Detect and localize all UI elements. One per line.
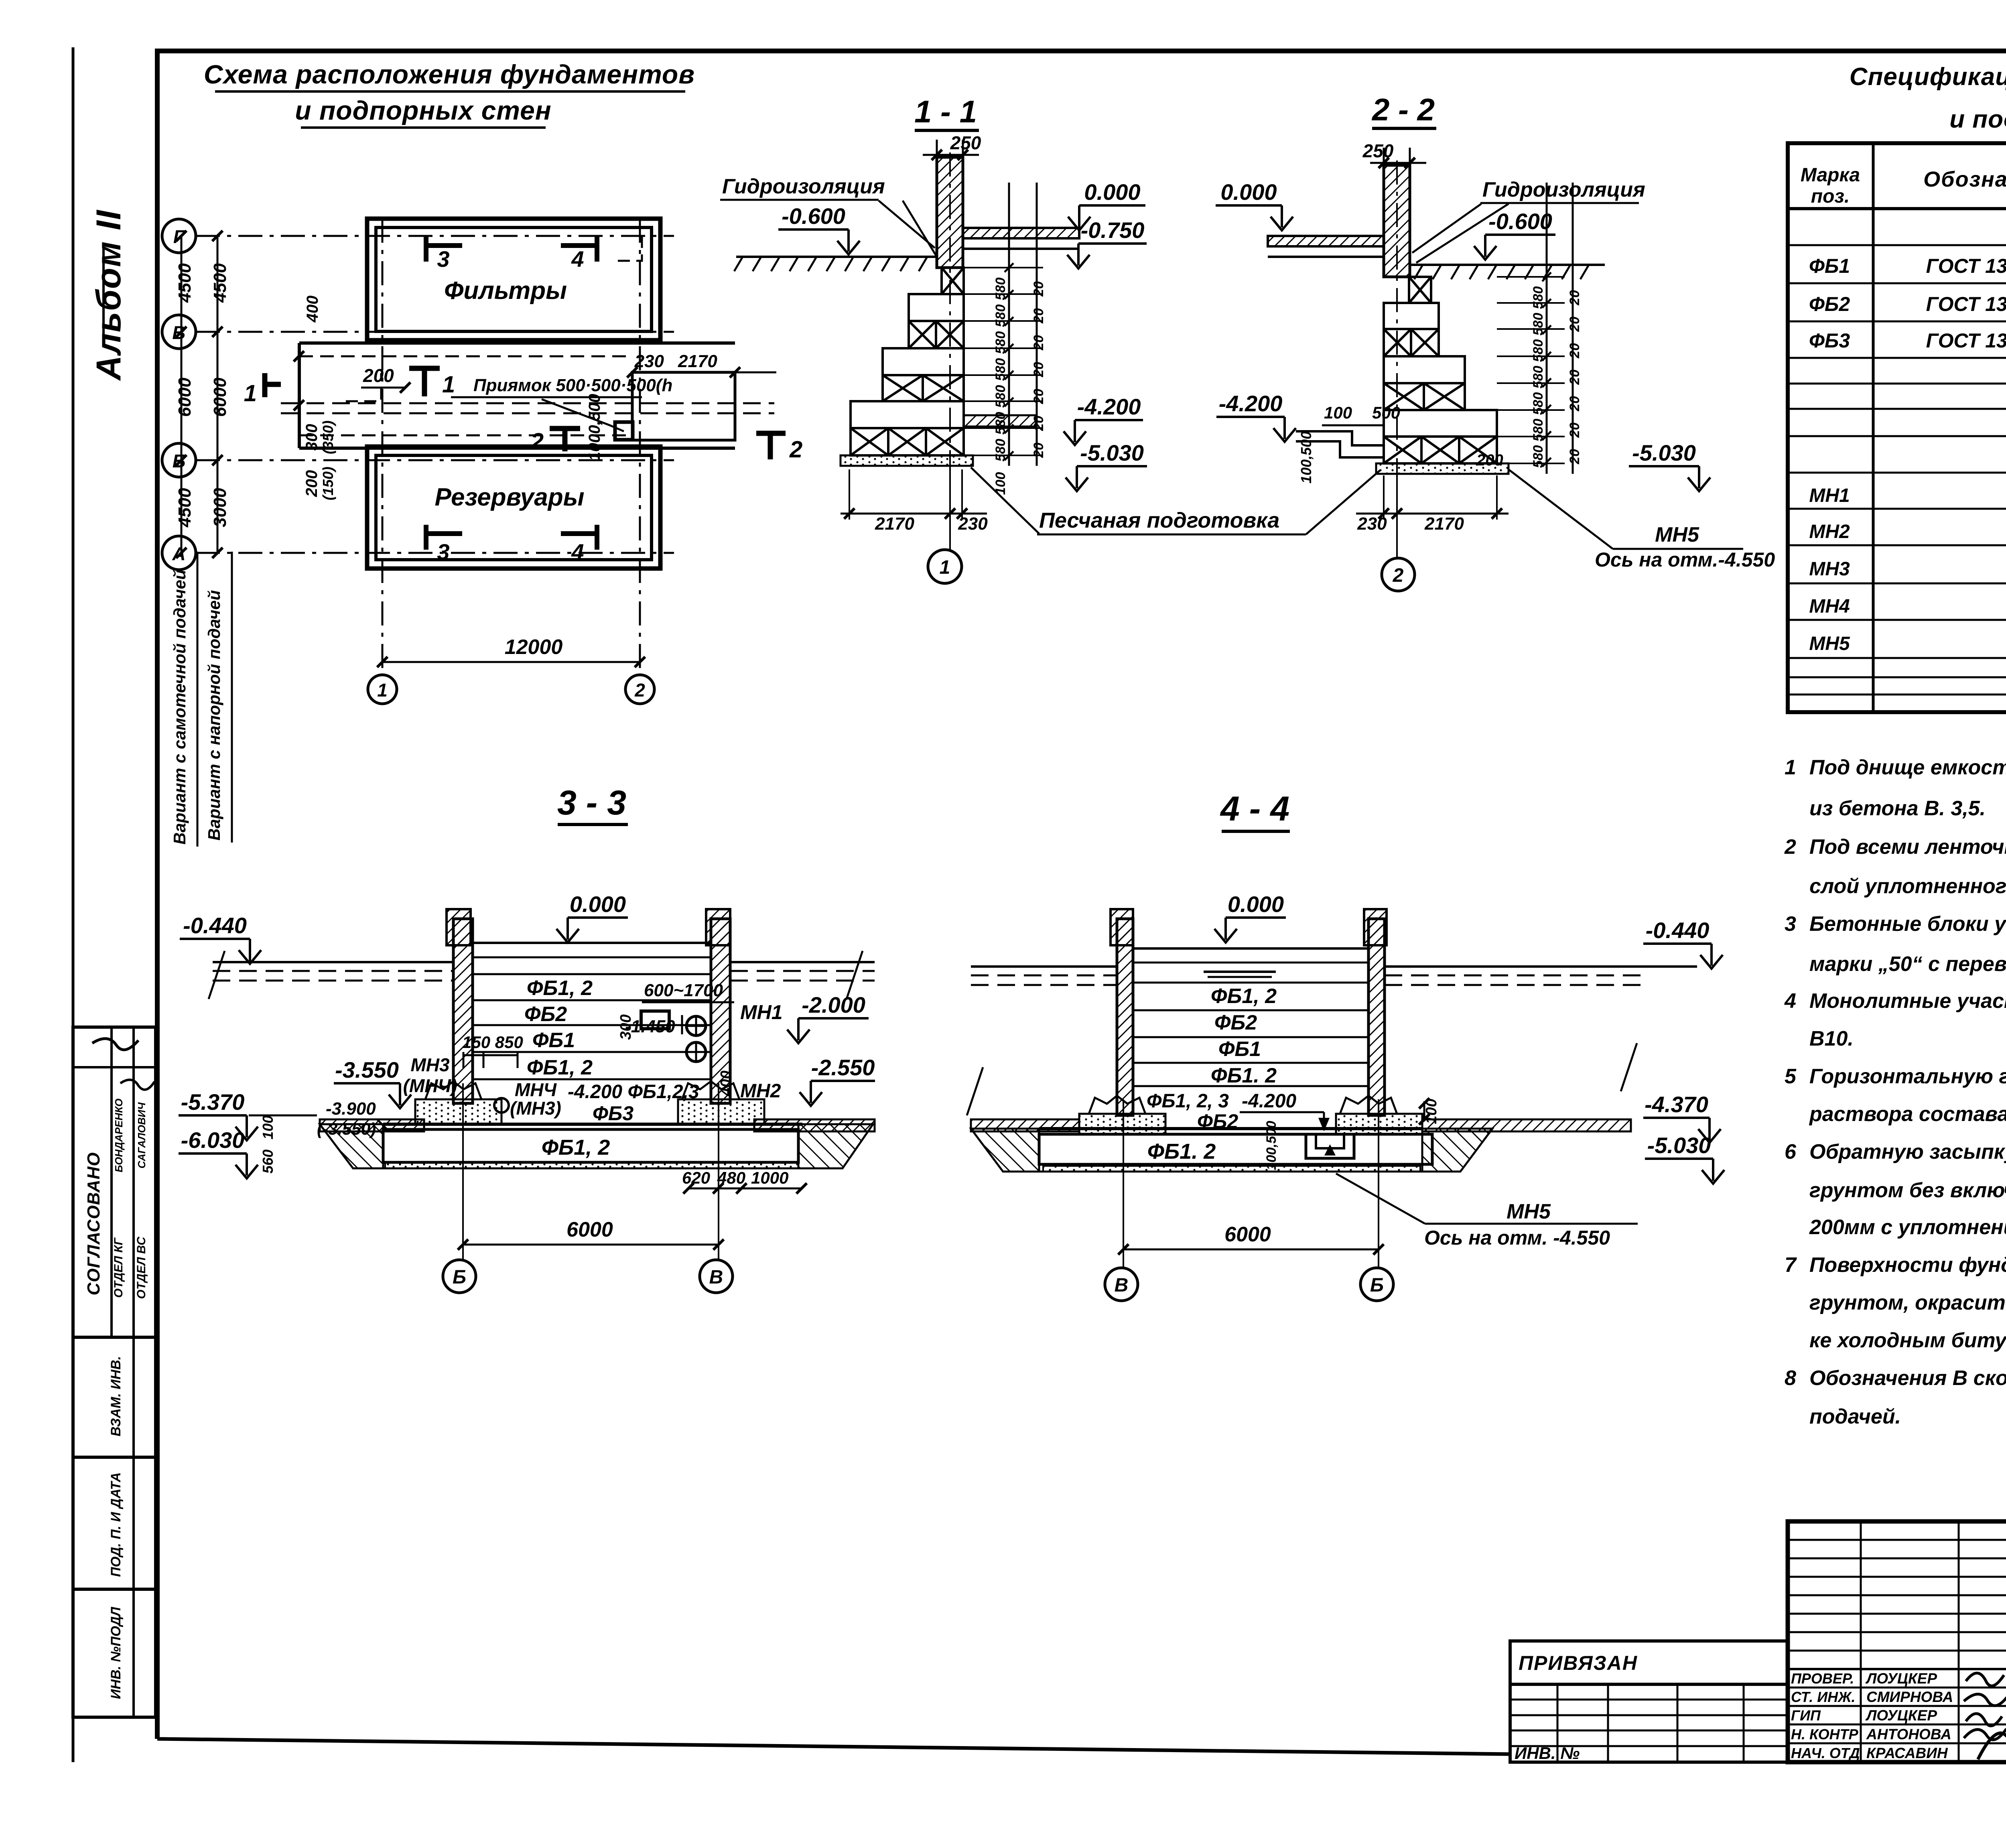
3-3 bottom slab bbox=[383, 1123, 802, 1126]
svg-text:из бетона В. 3,5.: из бетона В. 3,5. bbox=[1809, 797, 1986, 820]
approval stamp grid bbox=[73, 1066, 156, 1068]
svg-text:ФБ1. 2: ФБ1. 2 bbox=[1211, 1064, 1277, 1087]
4-4 right wall top cap bbox=[1364, 909, 1387, 945]
grid circle А bbox=[162, 536, 196, 570]
3-3 elevation -5.370 bbox=[179, 1115, 258, 1140]
gallery right extension bbox=[632, 372, 735, 440]
svg-text:-2.000: -2.000 bbox=[802, 992, 865, 1017]
svg-text:230: 230 bbox=[1357, 514, 1387, 534]
svg-text:2: 2 bbox=[634, 680, 645, 701]
2-2 floor slab left bbox=[1268, 236, 1384, 246]
3-3 ground band hatched left bbox=[320, 1119, 424, 1131]
svg-text:3: 3 bbox=[437, 539, 449, 565]
3-3 ground water dashed right bbox=[730, 970, 875, 972]
3-3 dim 620 480 1000 bbox=[688, 1188, 802, 1190]
1-1 elevation -5.030 bbox=[1066, 466, 1147, 491]
svg-text:Резервуары: Резервуары bbox=[434, 483, 584, 511]
svg-text:подачей.: подачей. bbox=[1809, 1405, 1901, 1428]
svg-text:230: 230 bbox=[958, 514, 988, 534]
svg-text:-4.200: -4.200 bbox=[1242, 1091, 1296, 1112]
grid line Г bbox=[196, 235, 674, 237]
svg-text:ЛОУЦКЕР: ЛОУЦКЕР bbox=[1865, 1707, 1937, 1724]
approval stamp box bbox=[73, 1027, 156, 1717]
svg-text:-4.370: -4.370 bbox=[1645, 1092, 1708, 1117]
svg-text:ФБ1: ФБ1 bbox=[532, 1029, 575, 1052]
svg-text:560: 560 bbox=[260, 1149, 276, 1174]
4-4 left wall bbox=[1117, 919, 1133, 1115]
4-4 ground level right bbox=[1385, 965, 1697, 968]
1-1 elevation -4.200 bbox=[1064, 420, 1143, 445]
svg-text:Альбом II: Альбом II bbox=[89, 209, 128, 381]
4-4 break marks bbox=[967, 1067, 983, 1115]
svg-text:4500: 4500 bbox=[175, 263, 195, 303]
svg-text:400: 400 bbox=[304, 296, 321, 323]
svg-text:слой уплотненного песка h=100: слой уплотненного песка h=100мм. bbox=[1809, 875, 2006, 898]
svg-text:ОТДЕЛ ВС: ОТДЕЛ ВС bbox=[135, 1236, 148, 1299]
2-2 elevation -5.030 bbox=[1629, 466, 1710, 491]
title block left grid bbox=[1510, 1684, 1788, 1762]
4-4 bottom slab bbox=[1039, 1127, 1422, 1130]
svg-text:200: 200 bbox=[1476, 451, 1503, 469]
svg-text:Марка: Марка bbox=[1801, 164, 1860, 186]
svg-text:В: В bbox=[709, 1267, 723, 1288]
section cut mark 1T left bbox=[262, 373, 268, 397]
svg-text:3 - 3: 3 - 3 bbox=[557, 784, 626, 822]
svg-text:Под всеми ленточными фундамент: Под всеми ленточными фундаментами предус… bbox=[1809, 835, 2006, 859]
svg-text:Вариант с напорной подачей: Вариант с напорной подачей bbox=[205, 590, 223, 841]
section cut mark T2 bbox=[768, 433, 773, 459]
row dimension line outer bbox=[181, 236, 183, 553]
svg-text:-2.550: -2.550 bbox=[811, 1055, 875, 1080]
svg-text:ГОСТ 13579-78: ГОСТ 13579-78 bbox=[1926, 293, 2006, 315]
2-2 hydro leader lines bbox=[1412, 204, 1481, 253]
svg-text:ФБ1, 2, 3: ФБ1, 2, 3 bbox=[1147, 1091, 1229, 1112]
building Резервуары outer wall bbox=[367, 447, 660, 569]
3-3 footing left bbox=[425, 1081, 481, 1099]
3-3 pipe МН2 circle bbox=[686, 1042, 706, 1062]
svg-text:Н. КОНТР: Н. КОНТР bbox=[1791, 1726, 1859, 1742]
1-1 floor slab right bbox=[963, 228, 1079, 238]
svg-text:1: 1 bbox=[244, 380, 257, 406]
svg-text:МН5: МН5 bbox=[1809, 633, 1850, 654]
svg-text:5: 5 bbox=[1785, 1065, 1797, 1088]
1-1 wall axis line bbox=[949, 152, 951, 461]
3-3 dim 6000 bbox=[463, 1244, 719, 1246]
svg-text:ФБ2: ФБ2 bbox=[1214, 1011, 1257, 1034]
svg-text:2: 2 bbox=[530, 428, 544, 455]
svg-text:Схема расположения фундаментов: Схема расположения фундаментов bbox=[204, 59, 695, 89]
svg-text:Б: Б bbox=[453, 1267, 466, 1288]
svg-text:МНЧ: МНЧ bbox=[515, 1079, 557, 1100]
svg-text:Гидроизоляция: Гидроизоляция bbox=[722, 175, 885, 198]
svg-text:20: 20 bbox=[1567, 449, 1582, 465]
svg-text:1000: 1000 bbox=[751, 1168, 788, 1187]
1-1 step dim extension lines bbox=[964, 267, 1043, 268]
approval signatures bbox=[92, 1039, 138, 1050]
svg-text:3: 3 bbox=[437, 246, 449, 272]
svg-text:-5.030: -5.030 bbox=[1647, 1133, 1711, 1158]
svg-text:Приямок 500·500·500(h: Приямок 500·500·500(h bbox=[473, 376, 672, 395]
3-3 inset detail box bbox=[641, 1011, 669, 1029]
4-4 footing left bbox=[1089, 1096, 1145, 1114]
2-2 dim stack 20 bbox=[1572, 183, 1574, 474]
svg-text:0.000: 0.000 bbox=[1084, 179, 1140, 205]
svg-text:ПРИВЯЗАН: ПРИВЯЗАН bbox=[1519, 1652, 1638, 1674]
3-3 right wall top cap bbox=[706, 909, 730, 945]
svg-text:20: 20 bbox=[1567, 317, 1582, 332]
1-1 elevation -0.750 bbox=[1067, 244, 1147, 268]
grid line В bbox=[196, 331, 674, 333]
svg-text:20: 20 bbox=[1031, 308, 1046, 324]
svg-text:ФБ2: ФБ2 bbox=[524, 1003, 567, 1026]
3-3 axis lines to circles bbox=[462, 1083, 464, 1260]
svg-text:Спецификация к схеме располож: Спецификация к схеме расположения фундам… bbox=[1850, 63, 2006, 91]
building Фильтры corner dashes bbox=[346, 373, 381, 401]
section mark 3 top bbox=[426, 243, 462, 248]
svg-text:20: 20 bbox=[1031, 362, 1046, 378]
gallery corridor left end bbox=[298, 343, 301, 448]
svg-text:ФБ1. 2: ФБ1. 2 bbox=[1147, 1139, 1216, 1164]
svg-text:АНТОНОВА: АНТОНОВА bbox=[1866, 1726, 1951, 1742]
section mark 3 bottom bbox=[426, 531, 462, 536]
4-4 right wall bbox=[1368, 919, 1385, 1115]
gallery axis dashed bbox=[281, 402, 774, 404]
3-3 elevation -6.030 bbox=[179, 1153, 258, 1178]
svg-text:580: 580 bbox=[993, 439, 1008, 462]
svg-text:НАЧ. ОТД: НАЧ. ОТД bbox=[1791, 1745, 1860, 1761]
1-1 hydro leader lines bbox=[879, 201, 935, 248]
svg-text:ВЗАМ. ИНВ.: ВЗАМ. ИНВ. bbox=[108, 1356, 124, 1436]
svg-text:200: 200 bbox=[303, 470, 321, 498]
3-3 top slab lines bbox=[473, 942, 711, 944]
svg-text:580: 580 bbox=[993, 278, 1008, 301]
grid circle Г bbox=[162, 219, 196, 253]
svg-text:4500: 4500 bbox=[210, 263, 230, 303]
2-2 sand prep strip bbox=[1376, 463, 1509, 474]
grid circle 2 bbox=[625, 675, 654, 704]
grid circle Б bbox=[162, 443, 196, 477]
1-1 elevation -0.600 bbox=[778, 229, 860, 254]
svg-text:МН3: МН3 bbox=[1809, 558, 1850, 580]
svg-text:0.000: 0.000 bbox=[1220, 179, 1277, 205]
building Фильтры outer wall bbox=[367, 219, 660, 340]
grid circle 1 bbox=[368, 675, 397, 704]
svg-text:200мм с уплотнением до плотнос: 200мм с уплотнением до плотности ρ Вf : … bbox=[1809, 1216, 2006, 1239]
svg-text:и подпорных стен: и подпорных стен bbox=[295, 95, 551, 125]
svg-text:500: 500 bbox=[1372, 403, 1400, 422]
svg-text:МН5: МН5 bbox=[1507, 1200, 1551, 1223]
3-3 bottom trapezoid right bbox=[798, 1124, 873, 1168]
4-4 bottom trapezoid right bbox=[1422, 1129, 1492, 1172]
svg-text:СТ. ИНЖ.: СТ. ИНЖ. bbox=[1791, 1689, 1856, 1705]
svg-text:20: 20 bbox=[1567, 422, 1582, 438]
4-4 top slab lines bbox=[1133, 947, 1368, 950]
svg-text:МН1: МН1 bbox=[740, 1001, 783, 1024]
4-4 groundwater dashed bbox=[971, 975, 1117, 977]
3-3 bottom sand line bbox=[383, 1168, 843, 1170]
svg-text:4500: 4500 bbox=[175, 488, 195, 528]
svg-text:100,500: 100,500 bbox=[1298, 431, 1314, 483]
4-4 left wall top cap bbox=[1111, 909, 1133, 945]
svg-text:6000: 6000 bbox=[175, 378, 195, 417]
svg-text:В: В bbox=[1115, 1275, 1129, 1296]
3-3 left wall top cap bbox=[447, 909, 471, 945]
4-4 ground band hatched left bbox=[971, 1119, 1079, 1131]
svg-text:ФБ1: ФБ1 bbox=[1809, 255, 1850, 277]
svg-text:580: 580 bbox=[1531, 419, 1546, 442]
svg-text:580: 580 bbox=[993, 331, 1008, 354]
svg-text:2170: 2170 bbox=[678, 351, 717, 371]
3-3 bottom trapezoid left bbox=[320, 1124, 383, 1168]
svg-text:-0.600: -0.600 bbox=[1488, 209, 1552, 234]
building Резервуары inner wall bbox=[376, 455, 652, 560]
svg-text:Монолитные участки между блока: Монолитные участки между блоками выполня… bbox=[1809, 989, 2006, 1013]
2-2 wall axis line bbox=[1396, 160, 1398, 465]
4-4 brick hatch mark top bbox=[1204, 971, 1276, 973]
svg-text:580: 580 bbox=[993, 385, 1008, 408]
4-4 elevation 0.000 bbox=[1214, 918, 1286, 942]
svg-text:580: 580 bbox=[1531, 445, 1546, 468]
svg-text:100: 100 bbox=[260, 1115, 276, 1139]
svg-text:ИНВ. №ПОДЛ: ИНВ. №ПОДЛ bbox=[108, 1606, 124, 1699]
spec table header bottom line bbox=[1788, 207, 2006, 210]
svg-text:ФБ1, 2: ФБ1, 2 bbox=[527, 977, 593, 1000]
4-4 ground level left bbox=[971, 965, 1117, 968]
spec table outer box bbox=[1788, 143, 2006, 712]
svg-text:580: 580 bbox=[1531, 313, 1546, 336]
grid line 2 vertical bbox=[639, 219, 641, 675]
svg-text:480: 480 bbox=[717, 1168, 745, 1187]
svg-text:Фильтры: Фильтры bbox=[444, 277, 567, 305]
svg-text:6000: 6000 bbox=[210, 378, 230, 417]
svg-text:МН3: МН3 bbox=[410, 1054, 450, 1075]
svg-text:-3.550: -3.550 bbox=[335, 1057, 399, 1082]
title block signatures squiggles bbox=[1966, 1673, 2004, 1686]
3-3 elevation -0.440 left bbox=[180, 939, 261, 964]
spec table column lines bbox=[1872, 143, 1875, 712]
svg-text:(150): (150) bbox=[320, 467, 336, 500]
svg-text:СОГЛАСОВАНО: СОГЛАСОВАНО bbox=[84, 1152, 104, 1295]
svg-text:-0.600: -0.600 bbox=[782, 203, 845, 229]
4-4 block joint lines bbox=[1133, 982, 1368, 984]
svg-text:-5.030: -5.030 bbox=[1080, 440, 1144, 465]
1-1 axis circle 1 bbox=[949, 461, 951, 550]
svg-text:20: 20 bbox=[1031, 389, 1046, 404]
3-3 ground water dashed left bbox=[213, 970, 453, 972]
3-3 elevation -2.550 bbox=[800, 1081, 875, 1106]
2-2 foundation blocks bbox=[1409, 277, 1431, 303]
plan bottom dimension 12000 bbox=[382, 661, 640, 663]
3-3 ground level left bbox=[213, 961, 453, 963]
svg-text:20: 20 bbox=[1031, 443, 1046, 458]
svg-text:Под днище емкостей выполнить б: Под днище емкостей выполнить бетонную по… bbox=[1809, 756, 2006, 779]
1-1 retaining wall hatched bbox=[937, 157, 963, 268]
svg-text:580: 580 bbox=[993, 358, 1008, 381]
4-4 elevation -0.440 right bbox=[1643, 944, 1723, 969]
svg-text:марки „50“ с перевязкой швов н: марки „50“ с перевязкой швов не менее 30… bbox=[1809, 952, 2006, 976]
svg-text:грунтом без включения строител: грунтом без включения строительного мусо… bbox=[1809, 1179, 2006, 1202]
svg-text:Ось на отм.-4.550: Ось на отм.-4.550 bbox=[1595, 548, 1775, 571]
3-3 circle В bbox=[700, 1260, 733, 1293]
svg-text:Горизонтальную гидроизоляцию с: Горизонтальную гидроизоляцию стен выполн… bbox=[1809, 1065, 2006, 1088]
svg-text:ФБ1: ФБ1 bbox=[1218, 1038, 1261, 1061]
svg-text:-0.750: -0.750 bbox=[1081, 217, 1145, 243]
svg-text:ФБ3: ФБ3 bbox=[593, 1102, 633, 1125]
svg-text:Обозначения В скобках даны для: Обозначения В скобках даны для Варианта … bbox=[1809, 1367, 2006, 1390]
2-2 bottom dims 230 2170 bbox=[1356, 513, 1509, 515]
svg-text:7: 7 bbox=[1785, 1253, 1797, 1277]
svg-text:(350): (350) bbox=[320, 420, 336, 454]
1-1 ground line left bbox=[736, 256, 937, 258]
grid line 1 vertical bbox=[382, 219, 384, 675]
2-2 dim stack 580 bbox=[1546, 183, 1548, 474]
svg-text:0.000: 0.000 bbox=[1228, 892, 1284, 917]
grid circle В bbox=[162, 315, 196, 349]
svg-text:Поверхности фундаментов галере: Поверхности фундаментов галереи, соприка… bbox=[1809, 1253, 2006, 1277]
building Фильтры inner wall bbox=[376, 227, 652, 331]
3-3 ground level right bbox=[730, 961, 875, 963]
1-1 foundation blocks bbox=[942, 268, 964, 294]
svg-text:300: 300 bbox=[303, 424, 321, 451]
2-2 axis circle 2 bbox=[1396, 465, 1398, 558]
4-4 footing right bbox=[1340, 1096, 1397, 1114]
svg-text:100: 100 bbox=[1324, 403, 1352, 422]
4-4 bottom trapezoid left bbox=[971, 1129, 1039, 1172]
svg-text:-3.900: -3.900 bbox=[326, 1099, 376, 1119]
svg-text:4: 4 bbox=[571, 539, 584, 565]
section cut mark 2T bbox=[562, 428, 568, 451]
3-3 footing right bbox=[682, 1081, 739, 1099]
svg-text:12000: 12000 bbox=[505, 636, 563, 659]
1-1 bottom dims 2170 230 bbox=[841, 513, 987, 515]
1-1 sand prep strip bbox=[841, 455, 973, 466]
svg-text:ПРОВЕР.: ПРОВЕР. bbox=[1791, 1670, 1854, 1687]
section mark 4 bottom bbox=[561, 531, 597, 536]
1-1 elevation 0.000 bbox=[1068, 205, 1145, 230]
svg-text:ГОСТ 13579-78: ГОСТ 13579-78 bbox=[1926, 255, 2006, 277]
svg-text:ФБ1, 2: ФБ1, 2 bbox=[542, 1135, 610, 1160]
svg-text:МН2: МН2 bbox=[1809, 521, 1850, 542]
svg-text:20: 20 bbox=[1567, 370, 1582, 385]
svg-text:3: 3 bbox=[1785, 912, 1796, 936]
svg-text:-5.030: -5.030 bbox=[1632, 440, 1696, 465]
svg-text:Б: Б bbox=[1370, 1275, 1384, 1296]
svg-text:грунтом, окрасить горячим биту: грунтом, окрасить горячим битумом за 2 р… bbox=[1809, 1291, 2006, 1314]
svg-text:ГИП: ГИП bbox=[1791, 1707, 1821, 1724]
svg-text:МН1: МН1 bbox=[1809, 485, 1850, 506]
svg-text:0.000: 0.000 bbox=[570, 892, 626, 917]
svg-text:ФБ2: ФБ2 bbox=[1809, 293, 1850, 315]
svg-text:620: 620 bbox=[682, 1168, 710, 1187]
title block upper grid rows bbox=[1788, 1539, 2006, 1541]
3-3 elevation 0.000 bbox=[556, 918, 628, 942]
svg-text:1 - 1: 1 - 1 bbox=[914, 94, 977, 129]
svg-text:-0.440: -0.440 bbox=[183, 913, 247, 938]
spec table row lines bbox=[1788, 244, 2006, 246]
svg-text:8: 8 bbox=[1785, 1367, 1796, 1390]
svg-text:-4.200: -4.200 bbox=[1219, 391, 1283, 416]
svg-text:1: 1 bbox=[940, 557, 950, 578]
2-2 elevation -4.200 bbox=[1216, 417, 1296, 442]
svg-text:ке холодным битумом, разведенн: ке холодным битумом, разведенно м В бенз… bbox=[1809, 1329, 2006, 1352]
svg-text:Обозначение: Обозначение bbox=[1923, 167, 2006, 191]
svg-text:1: 1 bbox=[442, 372, 455, 398]
svg-text:Гидроизоляция: Гидроизоляция bbox=[1482, 178, 1645, 201]
grid line Б bbox=[196, 459, 674, 461]
svg-text:4: 4 bbox=[1784, 989, 1796, 1013]
frame bottom edge bbox=[157, 1739, 1510, 1754]
1-1 hatched strip -4.200 bbox=[964, 415, 1036, 426]
svg-text:САГАЛОВИЧ: САГАЛОВИЧ bbox=[136, 1102, 148, 1168]
svg-text:20: 20 bbox=[1567, 396, 1582, 412]
4-4 circle Б bbox=[1360, 1268, 1393, 1301]
svg-text:2: 2 bbox=[1393, 565, 1404, 586]
1-1 dim stack 20 bbox=[1036, 183, 1038, 466]
grid line А bbox=[196, 552, 674, 554]
svg-text:6000: 6000 bbox=[566, 1218, 613, 1241]
svg-text:580: 580 bbox=[1531, 392, 1546, 415]
2-2 ground line right bbox=[1410, 264, 1605, 266]
4-4 elevation -5.030 bbox=[1645, 1159, 1724, 1184]
svg-text:В10.: В10. bbox=[1809, 1027, 1854, 1050]
svg-text:МН5: МН5 bbox=[1655, 523, 1699, 546]
3-3 left wall bbox=[453, 919, 473, 1103]
1-1 label leader to 2-2 sand strip bbox=[1306, 470, 1380, 534]
svg-text:-0.440: -0.440 bbox=[1646, 918, 1710, 943]
gallery corridor top wall bbox=[299, 341, 735, 345]
svg-text:1: 1 bbox=[1785, 756, 1796, 779]
svg-text:Бетонные блоки укладывать на ц: Бетонные блоки укладывать на цементном р… bbox=[1809, 912, 2006, 936]
2-2 pipe detail lower left bbox=[1296, 431, 1384, 445]
svg-text:(МН3): (МН3) bbox=[510, 1098, 561, 1119]
1-1 dim stack 580 bbox=[1008, 183, 1010, 466]
section mark 4 top bbox=[561, 243, 597, 248]
svg-text:580: 580 bbox=[993, 305, 1008, 327]
4-4 circle В bbox=[1105, 1268, 1138, 1301]
svg-text:ПОД. П. И ДАТА: ПОД. П. И ДАТА bbox=[108, 1472, 124, 1577]
3-3 ground band hatched right bbox=[754, 1119, 875, 1131]
title block staff rows bbox=[1788, 1687, 2006, 1689]
svg-text:600~1700: 600~1700 bbox=[644, 981, 723, 1000]
row dimension line inner bbox=[217, 236, 219, 553]
4-4 elevation -4.370 bbox=[1643, 1118, 1721, 1143]
svg-text:20: 20 bbox=[1031, 281, 1046, 297]
svg-text:раствора состава 1:2, толшиной: раствора состава 1:2, толшиной 30 мм. bbox=[1809, 1103, 2006, 1126]
3-3 elevation -2.000 bbox=[787, 1018, 869, 1043]
2-2 elevation 0.000 bbox=[1216, 205, 1293, 230]
svg-text:20: 20 bbox=[1567, 343, 1582, 359]
4-4 axis lines to circles bbox=[1123, 1099, 1124, 1268]
3-3 pipe МН1 circle bbox=[686, 1016, 706, 1036]
svg-text:ФБ1, 2: ФБ1, 2 bbox=[1211, 985, 1277, 1008]
svg-text:2170: 2170 bbox=[1424, 514, 1464, 534]
svg-text:4: 4 bbox=[571, 246, 584, 272]
svg-text:20: 20 bbox=[1031, 335, 1046, 351]
svg-text:Ось на отм. -4.550: Ось на отм. -4.550 bbox=[1424, 1227, 1610, 1249]
svg-text:-6.030: -6.030 bbox=[181, 1127, 245, 1153]
svg-text:250: 250 bbox=[950, 132, 981, 153]
svg-text:СМИРНОВА: СМИРНОВА bbox=[1866, 1689, 1953, 1705]
svg-text:1: 1 bbox=[377, 680, 388, 701]
svg-text:Обратную засыпку пазух фундаме: Обратную засыпку пазух фундаментов произ… bbox=[1809, 1140, 2006, 1164]
3-3 block joint lines bbox=[473, 973, 711, 975]
svg-text:200: 200 bbox=[363, 365, 394, 386]
4-4 dim 6000 bbox=[1123, 1249, 1379, 1251]
corridor left dims marks bbox=[298, 356, 300, 405]
4-4 bottom sand line bbox=[1003, 1171, 1460, 1173]
svg-text:1000,500: 1000,500 bbox=[586, 394, 603, 461]
gallery corridor bottom wall bbox=[299, 447, 735, 450]
